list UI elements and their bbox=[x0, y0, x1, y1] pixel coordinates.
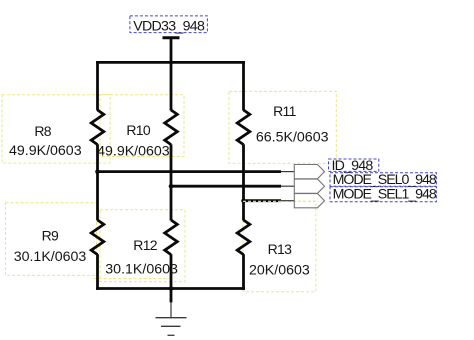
resistor R13 bbox=[237, 220, 250, 255]
svg-text:VDD33_948: VDD33_948 bbox=[133, 18, 205, 34]
svg-text:20K/0603: 20K/0603 bbox=[249, 263, 310, 279]
wire: MODE_SEL1 horizontal bbox=[242, 199, 281, 202]
junction dot at R11/R13/SEL1 bbox=[241, 198, 246, 203]
off-page connector MODE_SEL1 bbox=[294, 194, 324, 208]
part bbox R8 (yellow dashed) bbox=[2, 95, 110, 163]
ground bbox=[170, 302, 172, 318]
net label box ID_948 (blue dashed) bbox=[329, 159, 379, 171]
svg-text:R9: R9 bbox=[42, 228, 59, 244]
resistor R8 bbox=[91, 110, 104, 145]
off-page connector MODE_SEL0 bbox=[294, 179, 324, 193]
wire: middle vertical lower (R12 to ground stub) bbox=[170, 254, 173, 302]
junction dot at R8/R9/ID bbox=[95, 169, 100, 174]
svg-text:R11: R11 bbox=[273, 103, 296, 119]
wire: ID horizontal bbox=[96, 170, 281, 173]
pin line ID bbox=[281, 171, 295, 173]
svg-text:MODE_SEL1_948: MODE_SEL1_948 bbox=[333, 187, 437, 203]
part bbox R9 (yellow dashed) bbox=[6, 203, 97, 276]
svg-text:49.9K/0603: 49.9K/0603 bbox=[97, 144, 170, 160]
resistor R12 bbox=[165, 220, 178, 255]
svg-text:30.1K/0603: 30.1K/0603 bbox=[14, 249, 87, 265]
svg-text:R13: R13 bbox=[268, 241, 292, 257]
wire: right vertical lower (R13 to bottom bus) bbox=[242, 254, 245, 290]
wire: MODE_SEL0 horizontal bbox=[170, 185, 281, 188]
part bbox R13 (yellow dashed) bbox=[243, 201, 316, 291]
resistor R10 bbox=[165, 110, 178, 145]
pin line MODE_SEL1 bbox=[281, 200, 295, 202]
svg-text:R8: R8 bbox=[34, 123, 51, 139]
wire: middle vertical middle (R10 to R12) bbox=[170, 144, 173, 220]
off-page connector ID bbox=[294, 165, 324, 179]
svg-text:49.9K/0603: 49.9K/0603 bbox=[9, 143, 82, 159]
wire: left vertical upper (bus to R8) bbox=[96, 61, 99, 111]
resistor R11 bbox=[237, 110, 250, 145]
net label box MODE_SEL0_948 (blue dashed) bbox=[330, 173, 436, 186]
net label box VDD33_948 (blue dashed) bbox=[130, 16, 208, 33]
net label box MODE_SEL1_948 (blue dashed) bbox=[330, 187, 436, 202]
svg-text:66.5K/0603: 66.5K/0603 bbox=[256, 130, 329, 146]
wire: middle vertical upper (bus to R10) bbox=[170, 61, 173, 111]
part bbox R12 (yellow dashed) bbox=[100, 210, 185, 282]
junction dot at ground/bottom bus bbox=[169, 286, 174, 291]
wire: left vertical middle (R8 to R9) bbox=[96, 144, 99, 220]
junction dot at R10/R12/SEL0 bbox=[169, 184, 174, 189]
wire: right vertical middle (R11 to R13) bbox=[242, 144, 245, 220]
power stem VDD bbox=[170, 38, 173, 64]
wire: bottom bus bbox=[96, 287, 245, 290]
pin line MODE_SEL0 bbox=[281, 185, 295, 187]
svg-text:R12: R12 bbox=[133, 237, 157, 253]
svg-text:30.1K/0603: 30.1K/0603 bbox=[105, 262, 178, 278]
svg-text:MODE_SEL0_948: MODE_SEL0_948 bbox=[333, 172, 437, 188]
part bbox R11 (yellow dashed) bbox=[229, 91, 336, 163]
part bbox R10 (yellow dashed) bbox=[100, 95, 184, 157]
power bar symbol bbox=[163, 36, 180, 39]
property bbox line (yellow dashed) bbox=[94, 278, 173, 280]
part bbox R13 top edge overlay (yellow dashes cutting MODE_SEL1 wire) bbox=[243, 200, 316, 202]
wire: right vertical upper (bus to R11) bbox=[242, 61, 245, 111]
svg-text:R10: R10 bbox=[126, 122, 150, 138]
resistor R9 bbox=[91, 220, 104, 255]
wire: left vertical lower (R9 to bottom bus) bbox=[96, 254, 99, 290]
wire: top bus bbox=[96, 61, 245, 64]
